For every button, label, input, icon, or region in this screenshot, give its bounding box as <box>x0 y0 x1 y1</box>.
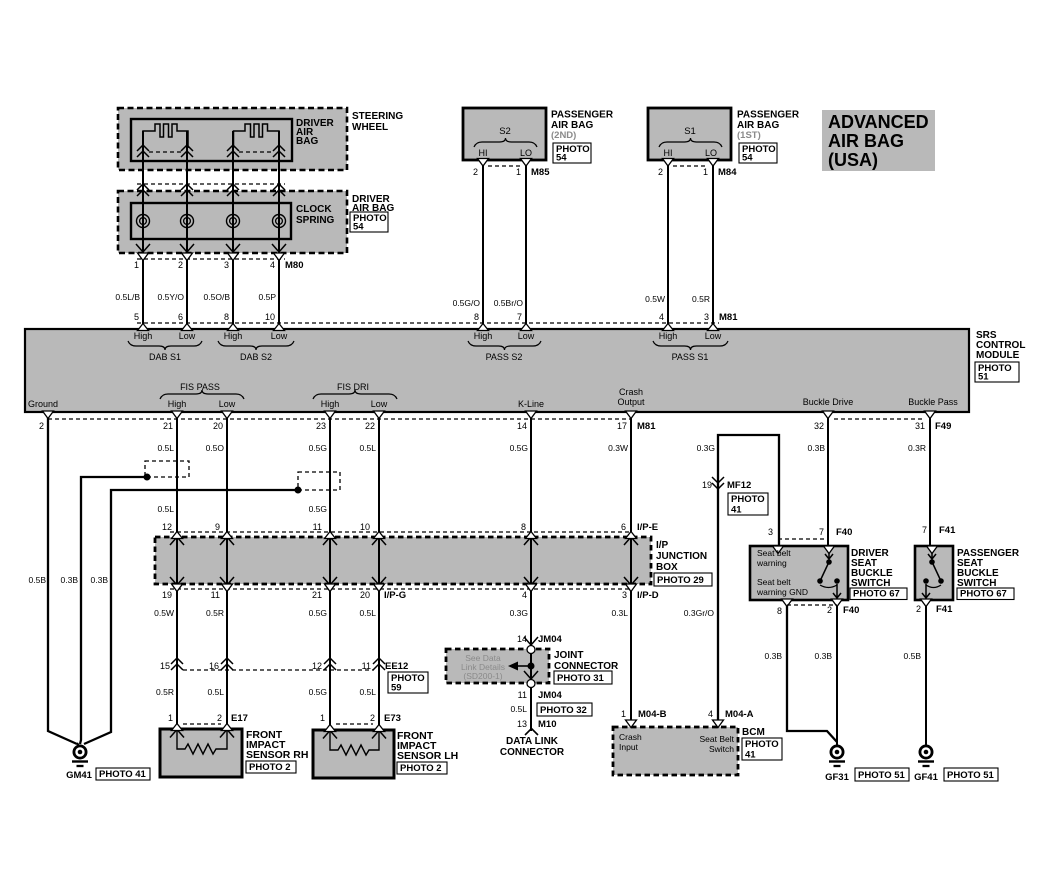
inline connector chevrons steering-clock x=233 <box>227 184 239 196</box>
svg-text:23: 23 <box>316 421 326 431</box>
squib driver air bag S1 <box>143 124 188 148</box>
passenger air bag 2nd box border <box>463 108 546 160</box>
svg-text:E17: E17 <box>231 713 248 724</box>
svg-text:PASSENGER: PASSENGER <box>551 110 614 121</box>
connector M80 exit arrow x=279 <box>272 244 286 252</box>
svg-text:E73: E73 <box>384 713 401 724</box>
photo box 2 RH <box>246 761 296 773</box>
passenger switch exit arrow <box>922 584 930 598</box>
connector M80 exit arrow x=233 <box>226 244 240 252</box>
driver switch pin8 exit notch <box>782 599 793 607</box>
I/P junction box fill <box>155 537 651 584</box>
SRS top entry notch pin 7 <box>521 324 532 331</box>
svg-text:I/P-E: I/P-E <box>637 522 658 533</box>
photo box 41 GM41 <box>96 768 150 780</box>
junction box top notch x=631 <box>626 532 637 539</box>
svg-text:I/P-D: I/P-D <box>637 590 659 601</box>
svg-text:0.3G: 0.3G <box>697 443 715 453</box>
svg-text:12: 12 <box>162 522 172 532</box>
svg-text:Ground: Ground <box>28 399 58 409</box>
band brace PASS S2 <box>468 341 541 350</box>
SRS bottom exit notch pin 22 <box>374 411 385 419</box>
data link connector chevron <box>525 729 538 736</box>
svg-text:PHOTO 2: PHOTO 2 <box>400 763 442 774</box>
svg-text:FIS PASS: FIS PASS <box>180 382 220 392</box>
svg-text:K-Line: K-Line <box>518 399 544 409</box>
svg-text:0.5Y/O: 0.5Y/O <box>158 292 185 302</box>
driver switch bottom dashed line <box>787 604 837 606</box>
driver switch top dashed line <box>778 538 829 540</box>
SRS top entry notch pin 8 <box>478 324 489 331</box>
svg-text:8: 8 <box>474 312 479 322</box>
SRS top entry notch pin 5 <box>138 324 149 331</box>
svg-text:High: High <box>168 399 187 409</box>
svg-text:0.5B: 0.5B <box>904 651 922 661</box>
sensor RH entry notch x=227 <box>222 724 233 731</box>
brace S2 <box>474 138 537 147</box>
svg-text:F40: F40 <box>843 605 859 616</box>
svg-text:54: 54 <box>556 153 567 164</box>
svg-text:10: 10 <box>265 312 275 322</box>
SRS bottom connector dashed line M81 <box>48 418 631 420</box>
junction box bottom exit arrow x=379 <box>372 577 386 585</box>
svg-text:PHOTO 41: PHOTO 41 <box>99 769 147 780</box>
ground GF31 <box>831 746 843 758</box>
svg-text:1: 1 <box>703 167 708 177</box>
svg-text:0.5G: 0.5G <box>309 608 327 618</box>
passenger switch pin2 exit notch <box>921 599 932 607</box>
svg-text:19: 19 <box>702 480 712 490</box>
svg-text:Seat belt: Seat belt <box>757 548 791 558</box>
svg-text:PHOTO 29: PHOTO 29 <box>657 575 704 586</box>
I/P junction top dashed line <box>170 531 632 533</box>
passenger switch pin7 entry notch <box>927 546 938 554</box>
svg-text:M84: M84 <box>718 167 737 178</box>
svg-text:AIR BAG: AIR BAG <box>828 131 904 151</box>
SRS bottom exit notch pin 14 <box>526 411 537 419</box>
svg-text:21: 21 <box>163 421 173 431</box>
junction box top entry arrow x=330 <box>323 537 337 545</box>
svg-text:59: 59 <box>391 683 402 694</box>
svg-text:CLOCK: CLOCK <box>296 204 332 215</box>
connector M80 notch x=187 <box>182 253 193 261</box>
svg-text:F41: F41 <box>939 525 956 536</box>
svg-text:Low: Low <box>219 399 236 409</box>
joint connector entry arrow <box>524 637 538 645</box>
svg-text:0.5O: 0.5O <box>206 443 225 453</box>
svg-text:0.5L: 0.5L <box>510 704 527 714</box>
svg-text:PHOTO 67: PHOTO 67 <box>853 589 900 600</box>
svg-text:22: 22 <box>365 421 375 431</box>
wire S2 HI pin2 to SRS pin8 <box>482 160 484 329</box>
svg-text:14: 14 <box>517 421 527 431</box>
steering wheel box border <box>118 108 347 170</box>
passenger switch arc <box>926 585 941 588</box>
connector M84 dashed line <box>673 165 708 167</box>
svg-text:S2: S2 <box>499 126 511 137</box>
svg-text:EE12: EE12 <box>385 661 408 672</box>
svg-text:0.5G/O: 0.5G/O <box>453 298 481 308</box>
photo box 41 MF12 <box>728 493 768 515</box>
svg-text:20: 20 <box>213 421 223 431</box>
clock spring box border <box>118 191 347 253</box>
svg-text:0.5W: 0.5W <box>645 294 665 304</box>
joint connector box fill <box>446 649 549 683</box>
wire FIS PASS Low (0.5O/0.5R/0.5L) x=227 <box>226 412 228 729</box>
svg-text:8: 8 <box>224 312 229 322</box>
junction box bottom exit arrow x=227 <box>220 577 234 585</box>
svg-text:warning GND: warning GND <box>756 587 808 597</box>
svg-text:1: 1 <box>168 713 173 723</box>
svg-text:BOX: BOX <box>656 562 678 573</box>
photo box 41 BCM <box>742 738 782 760</box>
svg-text:M80: M80 <box>285 260 303 271</box>
junction box bottom exit arrow x=631 <box>624 577 638 585</box>
SRS top entry notch pin 6 <box>182 324 193 331</box>
svg-text:JM04: JM04 <box>538 634 562 645</box>
svg-text:I/P: I/P <box>656 540 669 551</box>
svg-text:FIS DRI: FIS DRI <box>337 382 369 392</box>
svg-text:0.5O/B: 0.5O/B <box>204 292 231 302</box>
twisted pair dash squib1 <box>149 151 181 153</box>
sensor LH entry arrow x=330 <box>323 731 337 739</box>
svg-text:1: 1 <box>621 709 626 719</box>
svg-text:41: 41 <box>745 750 756 761</box>
svg-text:GF31: GF31 <box>825 772 849 783</box>
photo box 59 <box>388 672 428 693</box>
passenger switch blade <box>933 564 940 579</box>
svg-text:51: 51 <box>978 372 989 383</box>
driver switch arc <box>820 585 837 588</box>
shield drain junction dot left <box>144 474 151 481</box>
junction box bottom notch x=227 <box>222 584 233 592</box>
photo box 51 SRS <box>975 362 1019 382</box>
passenger switch contact dot left <box>923 578 929 584</box>
svg-text:Low: Low <box>271 331 288 341</box>
junction box top entry arrow x=631 <box>624 537 638 545</box>
driver switch pin2 exit notch <box>832 599 843 607</box>
junction box bottom notch x=330 <box>325 584 336 592</box>
sensor LH entry notch x=330 <box>325 725 336 732</box>
svg-text:High: High <box>659 331 678 341</box>
svg-text:0.5G: 0.5G <box>309 504 327 514</box>
wire seat belt warning GND 0.3B <box>787 600 837 742</box>
SRS bottom exit notch pin 32 <box>823 411 834 419</box>
joint connector junction dot <box>528 663 535 670</box>
junction box top notch x=531 <box>526 532 537 539</box>
svg-text:SENSOR RH: SENSOR RH <box>246 749 308 761</box>
svg-text:41: 41 <box>731 505 742 516</box>
svg-text:PASS S2: PASS S2 <box>486 352 523 362</box>
connector M80 notch x=233 <box>228 253 239 261</box>
svg-text:0.5L: 0.5L <box>207 687 224 697</box>
svg-text:0.3B: 0.3B <box>815 651 833 661</box>
svg-text:Low: Low <box>179 331 196 341</box>
BCM box fill <box>613 727 738 775</box>
wire driver airbag column 3 (x=233) <box>232 131 234 329</box>
passenger air bag 1st box fill <box>648 108 731 160</box>
svg-text:SWITCH: SWITCH <box>851 578 890 589</box>
connector E73 dashed line <box>336 723 373 725</box>
SRS top entry notch pin 4 <box>663 324 674 331</box>
SRS bottom exit notch pin 23 <box>325 411 336 419</box>
svg-text:0.3B: 0.3B <box>808 443 826 453</box>
connector chevrons inside driver airbag x=279 <box>273 145 285 157</box>
svg-text:DAB S2: DAB S2 <box>240 352 272 362</box>
svg-text:PHOTO 32: PHOTO 32 <box>540 705 587 716</box>
svg-text:0.3B: 0.3B <box>61 575 79 585</box>
inline connector chevrons pin 12 x=330 <box>324 658 336 670</box>
SRS bottom exit notch pin 17 <box>626 411 637 419</box>
junction box bottom notch x=531 <box>526 584 537 592</box>
title block ADVANCED AIR BAG (USA) <box>822 110 935 171</box>
svg-text:Seat Belt: Seat Belt <box>700 734 735 744</box>
driver seat buckle switch box border <box>750 546 848 600</box>
SRS top entry notch pin 3 <box>708 324 719 331</box>
svg-text:High: High <box>474 331 493 341</box>
wire driver airbag column 2 (x=187) <box>186 131 188 329</box>
svg-text:17: 17 <box>617 421 627 431</box>
svg-text:2: 2 <box>39 421 44 431</box>
SRS top entry notch pin 8 <box>228 324 239 331</box>
svg-text:0.5L: 0.5L <box>359 687 376 697</box>
inline connector chevrons pin 11 x=379 <box>373 658 385 670</box>
S1 pin 1 notch <box>708 159 719 167</box>
svg-text:(SD200-1): (SD200-1) <box>463 671 502 681</box>
svg-text:0.3W: 0.3W <box>608 443 628 453</box>
joint connector exit ring <box>527 680 535 688</box>
svg-text:0.5L: 0.5L <box>359 608 376 618</box>
svg-text:3: 3 <box>224 260 229 270</box>
svg-text:19: 19 <box>162 590 172 600</box>
photo box 67 passenger <box>957 588 1014 600</box>
joint connector entry ring <box>527 646 535 654</box>
svg-text:WHEEL: WHEEL <box>352 122 388 133</box>
wire driver buckle switch to GF31 0.3B <box>836 600 838 746</box>
brace S1 <box>659 138 722 147</box>
svg-text:0.5P: 0.5P <box>259 292 277 302</box>
svg-text:M10: M10 <box>538 719 556 730</box>
svg-text:High: High <box>321 399 340 409</box>
SRS bottom exit notch pin 21 <box>172 411 183 419</box>
svg-text:10: 10 <box>360 522 370 532</box>
front impact sensor RH box border <box>160 729 242 777</box>
driver switch pin7 entry notch <box>824 546 835 554</box>
resistor front impact sensor LH <box>330 732 379 755</box>
svg-text:GF41: GF41 <box>914 772 938 783</box>
photo box 51 GF31 <box>855 768 909 781</box>
twisted pair dash squib2 <box>239 151 273 153</box>
band brace FIS DRI <box>313 390 397 399</box>
passenger seat buckle switch box fill <box>915 546 953 600</box>
svg-text:20: 20 <box>360 590 370 600</box>
svg-text:0.5G: 0.5G <box>309 687 327 697</box>
svg-text:Low: Low <box>371 399 388 409</box>
svg-text:1: 1 <box>134 260 139 270</box>
svg-text:0.3G: 0.3G <box>510 608 528 618</box>
steering wheel box fill <box>118 108 347 170</box>
wire K-Line (0.5G/0.3G/0.5L) x=531 <box>530 412 532 731</box>
inline connector chevrons steering-clock x=279 <box>273 184 285 196</box>
driver switch contact dot top <box>826 559 832 565</box>
driver switch blade <box>821 564 828 579</box>
svg-text:0.3Gr/O: 0.3Gr/O <box>684 608 715 618</box>
svg-text:PHOTO: PHOTO <box>745 739 779 750</box>
svg-text:ADVANCED: ADVANCED <box>828 112 929 132</box>
SRS control module band border <box>25 329 969 412</box>
I/P junction bottom dashed line <box>170 588 632 590</box>
svg-text:3: 3 <box>704 312 709 322</box>
svg-text:2: 2 <box>178 260 183 270</box>
svg-text:PHOTO 31: PHOTO 31 <box>557 673 605 684</box>
BCM pin1 M04-B entry notch <box>626 720 637 728</box>
S1 pin 2 notch <box>663 159 674 167</box>
svg-text:(1ST): (1ST) <box>737 130 761 141</box>
svg-text:12: 12 <box>312 661 322 671</box>
svg-text:32: 32 <box>814 421 824 431</box>
svg-text:0.5L: 0.5L <box>157 443 174 453</box>
joint connector arrow <box>518 665 529 667</box>
svg-text:(USA): (USA) <box>828 150 878 170</box>
svg-text:2: 2 <box>370 713 375 723</box>
SRS bottom exit notch pin 20 <box>222 411 233 419</box>
SRS top entry notch pin 10 <box>274 324 285 331</box>
inline connector dashed line steering-clock <box>137 183 285 185</box>
wire Buckle Drive 0.3B x=828 <box>827 412 829 546</box>
svg-text:54: 54 <box>742 153 753 164</box>
svg-text:DATA LINK: DATA LINK <box>506 736 559 747</box>
front impact sensor LH box border <box>313 730 394 778</box>
svg-text:0.5R: 0.5R <box>692 294 710 304</box>
wire GM41 ground stem <box>77 743 80 747</box>
connector M85 dashed line <box>488 165 521 167</box>
svg-text:0.5R: 0.5R <box>156 687 174 697</box>
passenger air bag 2nd box fill <box>463 108 546 160</box>
svg-text:0.5G: 0.5G <box>510 443 528 453</box>
junction box bottom exit arrow x=330 <box>323 577 337 585</box>
svg-text:PASSENGER: PASSENGER <box>737 110 800 121</box>
svg-text:0.5W: 0.5W <box>154 608 174 618</box>
connector E17 dashed line <box>183 723 221 725</box>
svg-text:3: 3 <box>768 527 773 537</box>
wire S2 LO pin1 to SRS pin7 <box>525 160 527 329</box>
passenger seat buckle switch box border <box>915 546 953 600</box>
svg-text:High: High <box>224 331 243 341</box>
svg-text:Low: Low <box>705 331 722 341</box>
ground GF41 <box>920 746 932 758</box>
junction box top notch x=227 <box>222 532 233 539</box>
svg-text:GM41: GM41 <box>66 770 93 781</box>
sensor RH entry notch x=177 <box>172 724 183 731</box>
svg-text:0.3B: 0.3B <box>91 575 109 585</box>
BCM box border <box>613 727 738 775</box>
driver air bag inner box border <box>131 119 292 161</box>
svg-text:11: 11 <box>313 522 322 532</box>
band brace PASS S1 <box>653 341 728 350</box>
clock spring spiral x=143 <box>137 215 150 228</box>
junction box bottom notch x=379 <box>374 584 385 592</box>
svg-text:(2ND): (2ND) <box>551 130 576 141</box>
svg-text:2: 2 <box>916 604 921 614</box>
wire seat belt warning 0.3G/0.3Gr/O via MF12 <box>718 435 779 721</box>
wire driver airbag column 4 (x=279) <box>278 131 280 329</box>
svg-text:54: 54 <box>353 222 364 233</box>
joint connector exit arrow <box>524 671 538 679</box>
connector M80 notch x=143 <box>138 253 149 261</box>
svg-text:F40: F40 <box>836 527 852 538</box>
svg-text:BAG: BAG <box>296 136 318 147</box>
photo box 67 driver <box>850 588 907 600</box>
svg-text:MODULE: MODULE <box>976 350 1020 361</box>
svg-text:MF12: MF12 <box>727 480 751 491</box>
connector M80 notch x=279 <box>274 253 285 261</box>
svg-text:1: 1 <box>320 713 325 723</box>
svg-text:16: 16 <box>209 661 219 671</box>
svg-text:F49: F49 <box>935 421 951 432</box>
svg-text:M04-B: M04-B <box>638 709 667 720</box>
photo box 54 S1 <box>739 143 777 163</box>
svg-text:Input: Input <box>619 742 639 752</box>
svg-text:CONNECTOR: CONNECTOR <box>554 661 619 672</box>
photo box 2 LH <box>397 762 447 774</box>
junction box top notch x=379 <box>374 532 385 539</box>
svg-text:LO: LO <box>705 148 717 158</box>
connector EE12 dashed line <box>183 669 374 671</box>
svg-text:6: 6 <box>621 522 626 532</box>
svg-text:11: 11 <box>362 661 371 671</box>
shield box FIS DRI High <box>298 472 340 490</box>
photo box 29 <box>654 573 712 586</box>
svg-text:PHOTO 67: PHOTO 67 <box>960 589 1007 600</box>
squib driver air bag S2 <box>234 124 280 148</box>
sensor RH entry arrow x=227 <box>220 730 234 738</box>
connector chevrons inside driver airbag x=187 <box>181 145 193 157</box>
photo box 54 S2 <box>553 143 591 163</box>
svg-text:HI: HI <box>664 148 673 158</box>
wire shield drain 0.3B left <box>80 477 147 744</box>
svg-text:5: 5 <box>134 312 139 322</box>
svg-text:7: 7 <box>819 527 824 537</box>
svg-text:11: 11 <box>211 590 220 600</box>
svg-text:31: 31 <box>915 421 925 431</box>
sensor RH entry arrow x=177 <box>170 730 184 738</box>
svg-text:8: 8 <box>521 522 526 532</box>
passenger air bag 1st box border <box>648 108 731 160</box>
passenger switch contact dot right <box>938 578 944 584</box>
svg-text:PHOTO 51: PHOTO 51 <box>858 770 906 781</box>
svg-text:PHOTO 51: PHOTO 51 <box>947 770 995 781</box>
svg-text:STEERING: STEERING <box>352 111 403 122</box>
svg-text:11: 11 <box>518 690 527 700</box>
svg-text:LO: LO <box>520 148 532 158</box>
junction box bottom exit arrow x=531 <box>524 577 538 585</box>
svg-text:M04-A: M04-A <box>725 709 754 720</box>
svg-text:0.5G: 0.5G <box>309 443 327 453</box>
wire S1 LO pin1 to SRS pin3 <box>712 160 714 329</box>
svg-text:M81: M81 <box>637 421 656 432</box>
svg-text:4: 4 <box>708 709 713 719</box>
wire S1 HI pin2 to SRS pin4 <box>667 160 669 329</box>
shield drain junction dot right <box>295 487 302 494</box>
wire shield drain 0.3B right <box>84 490 298 744</box>
ground GM41 <box>74 746 86 758</box>
inline connector chevrons pin 15 x=177 <box>171 658 183 670</box>
clock spring spiral x=279 <box>273 215 286 228</box>
svg-text:13: 13 <box>517 719 527 729</box>
svg-text:PHOTO: PHOTO <box>731 494 765 505</box>
svg-text:6: 6 <box>178 312 183 322</box>
photo box 31 <box>554 671 612 684</box>
